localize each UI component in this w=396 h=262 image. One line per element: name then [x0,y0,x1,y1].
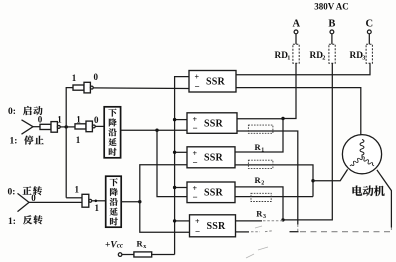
wire SSR2 bottom eroded stub [297,225,299,232]
wire G3 output to delay D2 [92,200,106,202]
resistor R2 (snubber across SSR3 output) [248,160,273,186]
svg-text:+: + [195,217,200,226]
SSR U3 [187,147,235,168]
wire phase C terminal to fuse RD3 [368,34,370,45]
junction bus/SSR5+ [173,219,176,222]
svg-text:0: 0 [38,115,43,125]
SSR U2 [187,113,237,134]
svg-text:1: 1 [72,73,77,83]
+Vcc terminal [105,240,123,256]
junction phase-A node [281,117,284,120]
svg-text:0:: 0: [8,107,16,117]
wire SSR4 top output to phase B node [235,187,283,220]
wire SSR1 bottom output to motor top terminal [236,88,361,135]
wire SSR2 top output to phase A node, down to SSR3 top [235,119,283,153]
svg-text:380V AC: 380V AC [314,2,349,12]
svg-text:0: 0 [31,193,36,203]
svg-text:1: 1 [76,115,81,125]
svg-text:SSR: SSR [204,188,224,199]
wire Rx to +Vcc terminal [122,254,134,256]
svg-text:0: 0 [94,115,99,125]
falling-edge delay block D1 (下降沿延时) [104,107,120,158]
wire SSR5 bottom output (eroded) [236,231,250,233]
svg-text:−: − [193,123,198,133]
svg-text:1: 1 [261,148,264,154]
junction bus/SSR4+ [173,186,176,189]
wire motor V node to motor lower-left terminal [313,169,348,180]
svg-text:+Vcc: +Vcc [105,240,123,250]
svg-text:A: A [293,19,301,30]
resistor R1 (snubber across SSR2 output) [248,125,273,153]
svg-text:SSR: SSR [204,153,224,164]
svg-text:1: 1 [95,203,100,213]
junction bus/SSR2+ [173,118,176,121]
node B (phase B terminal) [328,19,335,34]
wire SSR5 top output eroded part [263,220,283,222]
inverter G2 (to delay D1) [75,121,95,132]
node C (phase C terminal) [366,19,374,34]
inverter G1 (start/stop) [40,122,60,133]
node A (phase A terminal) [293,19,301,34]
wire G0 output to SSR1 minus input [93,87,189,90]
svg-text:3: 3 [263,214,266,220]
SSR U4 [187,182,235,203]
motor winding W (lower-right) [361,156,375,167]
label 0: 启动 (0: start) [8,106,43,117]
svg-text:C: C [366,19,374,30]
SSR U5 [190,215,236,237]
wire motor lower-right terminal down to W line [377,170,392,228]
motor winding V (lower-left) [349,156,363,167]
fuse RD3 [350,44,373,63]
svg-text:−: − [193,157,198,167]
svg-text:2: 2 [322,55,325,62]
wire motor W line (eroded dashed) [290,231,299,233]
fuse RD1 [275,44,300,63]
svg-text:−: − [195,82,200,92]
wire bus bottom to resistor Rx [152,254,175,256]
svg-text:0:: 0: [8,188,16,198]
wire riser corner into G3 upper input [66,197,82,199]
wire D1 junction down to SSR4 minus [157,130,187,196]
wire SSR3 bottom output to motor V node [235,165,313,197]
wire D2 output to junction [121,201,140,203]
wire D1 output to SSR2 minus [121,129,187,131]
label 0: 正转 (0: forward) [8,186,43,198]
label 1: 停止 (1: stop) [10,136,44,147]
svg-text:RD: RD [275,51,289,61]
scan specks (faint) [246,226,268,258]
inverter G0 (feeds SSR1) [73,82,93,93]
svg-text:0: 0 [94,72,99,82]
wire S2 to G3 lower input [29,201,82,203]
wire phase B terminal to fuse RD2 [331,34,333,45]
svg-text:1: 1 [57,115,62,125]
svg-text:1: 1 [287,55,290,62]
fuse RD2 [310,44,336,63]
wire D2 junction up to SSR3 minus [140,165,187,202]
svg-text:RD: RD [350,51,364,61]
SSR U1 (top, phase C switch) [189,71,236,93]
svg-text:2: 2 [261,180,264,186]
switch S1 (start/stop input) [22,120,34,134]
svg-text:1:: 1: [10,137,18,147]
junction D2 output [138,200,141,203]
junction G1 output node [65,125,68,128]
wire SSR2 bottom output down (to motor W line) [237,131,298,225]
resistor Rx [134,238,152,257]
svg-text:−: − [195,226,200,236]
junction phase-B node [281,218,284,221]
motor M (3-phase) [342,135,381,174]
svg-text:SSR: SSR [204,118,224,129]
svg-text:1:: 1: [8,217,16,227]
svg-text:1: 1 [74,185,79,195]
svg-text:RD: RD [310,51,324,61]
label 1: 反转 (1: reverse) [8,215,43,227]
junction blob on G3 output [95,200,98,203]
nand gate G3 (fwd/rev qualifier) [82,194,92,207]
junction D1 output [155,129,158,132]
svg-text:+: + [195,73,200,82]
svg-text:SSR: SSR [206,77,226,88]
svg-text:3: 3 [362,55,365,62]
wire riser: G1 node up to G_top input, down to G3 input [66,88,73,198]
motor winding U (top) [360,140,364,158]
svg-text:1: 1 [76,135,81,145]
switch S2 (forward/reverse input) [18,193,30,211]
wire SSR5 top output to phase B node [236,220,263,222]
junction bus/SSR3+ [173,151,176,154]
wire phase A: fuse RD1 down, left to node, junction [283,63,296,118]
svg-text:B: B [328,19,335,30]
wire S1 to inverter G1 [33,126,40,128]
svg-text:−: − [193,192,198,202]
wire G1 output to G2, junction to riser [60,126,75,128]
wire phase B: fuse RD2 down, turn left to SSR5/SSR4 node [283,63,332,220]
wire +Vcc bus (vertical) with SSR+ taps [175,77,189,255]
wire SSR4 bottom output to motor V node [235,196,313,198]
wire phase C: fuse RD3 down, left to SSR1 top output [236,63,370,74]
junction motor V node [311,179,314,182]
falling-edge delay block D2 (下降沿延时) [106,176,122,227]
svg-text:x: x [143,244,146,250]
wire D2 junction down to SSR5 minus [140,202,190,233]
resistor R3 (snubber across SSR4 output) [251,193,271,220]
svg-text:SSR: SSR [207,221,227,232]
label 电动机 (motor) [352,186,384,197]
wire phase A terminal to fuse RD1 [295,34,297,45]
wire G2 output to delay D1 [95,125,104,127]
